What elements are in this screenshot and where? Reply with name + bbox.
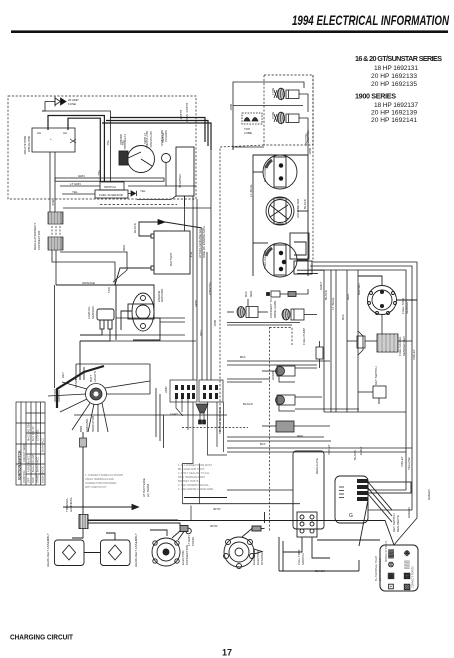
svg-text:HOURMETER: HOURMETER bbox=[296, 198, 300, 218]
svg-text:RED-WHITE: RED-WHITE bbox=[396, 515, 400, 532]
svg-text:VIOLET: VIOLET bbox=[412, 349, 416, 360]
svg-text:SIDE OF ENGINE MTG.: SIDE OF ENGINE MTG. bbox=[202, 225, 206, 258]
svg-text:YEL/RED: YEL/RED bbox=[208, 282, 212, 296]
svg-text:NO.2: NO.2 bbox=[271, 112, 275, 119]
points/condenser bbox=[242, 113, 262, 124]
svg-text:PROTECTED WIRE: PROTECTED WIRE bbox=[218, 407, 222, 434]
svg-text:BATTERY: BATTERY bbox=[169, 252, 173, 266]
svg-text:LT GRN: LT GRN bbox=[70, 182, 81, 186]
low oil coil bbox=[97, 309, 114, 320]
plug conn A bbox=[237, 307, 245, 318]
bar to right bbox=[368, 482, 411, 493]
svg-text:BLACK: BLACK bbox=[353, 450, 357, 460]
oil pressure switch bbox=[162, 154, 171, 163]
notes small text bbox=[85, 464, 214, 491]
fuse + holder right bbox=[347, 331, 412, 404]
svg-text:GREEN: GREEN bbox=[407, 507, 411, 518]
svg-text:FUEL SOLENOID: FUEL SOLENOID bbox=[99, 193, 124, 197]
svg-text:1. CONNECT WIRES AS SHOWN: 1. CONNECT WIRES AS SHOWN bbox=[85, 474, 123, 477]
spark plug 2 bbox=[274, 112, 299, 124]
horizontals mid bbox=[227, 436, 324, 438]
svg-text:18 HP 1692131: 18 HP 1692131 bbox=[374, 65, 418, 72]
svg-text:BLACK: BLACK bbox=[315, 569, 325, 573]
svg-text:IGNITION SWITCH: IGNITION SWITCH bbox=[18, 450, 22, 480]
svg-text:RED: RED bbox=[308, 148, 312, 155]
wire fuse to bundle bbox=[42, 102, 51, 112]
svg-text:LGT+SOL: LGT+SOL bbox=[36, 429, 40, 441]
svg-text:ELECT: ELECT bbox=[179, 110, 183, 120]
svg-text:BLK: BLK bbox=[189, 252, 193, 258]
svg-text:SENDER: SENDER bbox=[405, 301, 409, 314]
svg-text:RUN: RUN bbox=[31, 477, 35, 483]
svg-text:YELLOW: YELLOW bbox=[407, 457, 411, 470]
svg-text:CONN.: CONN. bbox=[191, 536, 195, 546]
svg-text:BRN: BRN bbox=[79, 426, 83, 432]
dash-dot right boundary x=313 bbox=[312, 75, 314, 262]
verticals down left of loop bbox=[323, 270, 325, 412]
svg-text:17: 17 bbox=[222, 648, 232, 658]
gauge 2 bbox=[266, 197, 294, 225]
dashed box top at console split bbox=[270, 328, 293, 346]
dashed boundary lower segment x=269.5 bbox=[269, 327, 271, 532]
svg-text:20 HP 1692139: 20 HP 1692139 bbox=[371, 110, 417, 117]
svg-text:1. ALL CONNECTIONS MUST: 1. ALL CONNECTIONS MUST bbox=[178, 464, 212, 467]
svg-text:STARTER: STARTER bbox=[260, 550, 264, 565]
svg-text:B+A+S+ACC: B+A+S+ACC bbox=[36, 457, 40, 472]
ground plate oval bbox=[132, 293, 154, 331]
svg-text:INDICATOR: INDICATOR bbox=[91, 415, 95, 432]
key switch component bbox=[373, 386, 386, 398]
CD module box bbox=[115, 220, 202, 286]
svg-text:FUEL GAUGE: FUEL GAUGE bbox=[263, 250, 267, 269]
electric connection motor bbox=[152, 538, 180, 566]
svg-text:ELECTRIC: ELECTRIC bbox=[252, 549, 256, 565]
fuel tank sender bbox=[358, 276, 417, 315]
svg-text:RED: RED bbox=[229, 104, 233, 111]
svg-text:G: G bbox=[349, 513, 353, 519]
svg-text:BULB CHECK: BULB CHECK bbox=[41, 466, 45, 483]
svg-text:YEL: YEL bbox=[140, 189, 146, 193]
svg-text:RED: RED bbox=[297, 434, 304, 438]
svg-text:LT. BLUE: LT. BLUE bbox=[249, 185, 253, 197]
svg-text:ORANGE: ORANGE bbox=[82, 281, 95, 285]
svg-text:TAN: TAN bbox=[107, 287, 111, 293]
svg-text:BLACK: BLACK bbox=[303, 199, 307, 209]
starter motor bbox=[224, 537, 254, 567]
regulator rectifier box bbox=[32, 128, 75, 152]
svg-text:HORN: HORN bbox=[271, 371, 275, 380]
svg-text:▒: ▒ bbox=[404, 560, 410, 569]
svg-text:HEADLIGHT ASSEMBLY: HEADLIGHT ASSEMBLY bbox=[46, 533, 50, 567]
svg-text:20 HP 1692133: 20 HP 1692133 bbox=[371, 73, 417, 80]
terminal cluster bbox=[357, 479, 368, 501]
svg-text:NO.1: NO.1 bbox=[271, 88, 275, 95]
svg-text:REGULATOR: REGULATOR bbox=[23, 136, 27, 155]
svg-text:ELECT. START: ELECT. START bbox=[185, 103, 189, 124]
svg-text:30YR: 30YR bbox=[213, 507, 221, 511]
plug conn B bbox=[282, 309, 290, 320]
vertical resistor right bbox=[316, 347, 323, 359]
svg-text:BLK: BLK bbox=[240, 355, 246, 359]
svg-text:COAT TERMINALS: COAT TERMINALS bbox=[378, 558, 382, 581]
svg-text:B+A+ACC LGT: B+A+ACC LGT bbox=[31, 454, 35, 472]
arrow on wire bbox=[132, 504, 139, 509]
svg-text:GREEN: GREEN bbox=[427, 489, 431, 500]
svg-text:CHARGING CIRCUIT: CHARGING CIRCUIT bbox=[10, 633, 74, 642]
svg-text:BLK: BLK bbox=[51, 200, 55, 206]
trunk connector row bbox=[170, 380, 248, 521]
bus lines from gauges to right bbox=[313, 262, 417, 510]
svg-text:GROUND: GROUND bbox=[160, 288, 164, 302]
scattered wire labels for scan texture bbox=[51, 110, 431, 565]
svg-text:+: + bbox=[50, 137, 52, 141]
starter box bbox=[176, 147, 194, 196]
svg-text:YEL: YEL bbox=[72, 190, 78, 194]
regulator labels bbox=[23, 98, 79, 155]
header rule bar bbox=[11, 30, 448, 33]
svg-text:SWITCH: SWITCH bbox=[104, 185, 116, 189]
svg-text:WIRING SYMBOLS: WIRING SYMBOLS bbox=[385, 540, 388, 562]
svg-text:CONNECTORS PROVIDED: CONNECTORS PROVIDED bbox=[85, 482, 117, 485]
tiny components above bbox=[271, 291, 280, 297]
gauge frame wires bbox=[253, 155, 308, 276]
magneto circle + stator bbox=[119, 146, 194, 197]
spokes bbox=[62, 382, 87, 389]
thick lead bbox=[57, 366, 104, 408]
gauge 3 bbox=[263, 243, 297, 277]
svg-text:LT GRN: LT GRN bbox=[143, 133, 147, 144]
outer solid wire rect bbox=[233, 82, 304, 150]
svg-text:LGHT: LGHT bbox=[170, 412, 178, 416]
svg-text:M+G MAG GRD: M+G MAG GRD bbox=[27, 422, 31, 441]
svg-text:B+S SOL ST: B+S SOL ST bbox=[31, 426, 35, 441]
svg-text:CONNECT. POINTS: CONNECT. POINTS bbox=[412, 566, 415, 588]
model list bbox=[355, 54, 442, 124]
svg-text:START: START bbox=[36, 474, 40, 483]
fuse 20A bbox=[51, 97, 66, 107]
svg-text:SENDER RED: SENDER RED bbox=[402, 335, 406, 356]
svg-text:AMP: AMP bbox=[164, 386, 168, 393]
svg-text:NONE B+ACC: NONE B+ACC bbox=[27, 455, 31, 472]
svg-text:RED: RED bbox=[346, 293, 350, 300]
engine dashed enclosure bbox=[8, 96, 196, 199]
svg-text:OIL GAUGE: OIL GAUGE bbox=[263, 166, 267, 182]
svg-text:KEY: KEY bbox=[61, 372, 65, 378]
svg-text:VIOLET: VIOLET bbox=[327, 444, 331, 455]
wires converging from left bbox=[116, 317, 185, 319]
svg-text:RECTIFIER: RECTIFIER bbox=[27, 136, 31, 153]
svg-text:BLK: BLK bbox=[260, 442, 266, 446]
micro switch B bbox=[276, 396, 285, 405]
svg-text:BLACK: BLACK bbox=[133, 223, 137, 233]
funnel of wires bbox=[196, 404, 208, 413]
svg-text:REGULATE: REGULATE bbox=[315, 458, 319, 474]
svg-text:YEL: YEL bbox=[97, 170, 101, 176]
regulator/rectifier connectors (hatched) bbox=[48, 212, 63, 250]
svg-text:B+ TERMINAL TIGHT: B+ TERMINAL TIGHT bbox=[374, 555, 378, 581]
spark plug 1 bbox=[274, 88, 299, 100]
gauge connection wires bbox=[253, 171, 263, 173]
svg-text:▓: ▓ bbox=[388, 549, 394, 559]
coil dashed box bbox=[264, 75, 313, 145]
fan-out wires bbox=[368, 482, 392, 510]
headlight assembly 2 bbox=[101, 540, 131, 566]
svg-text:GREY: GREY bbox=[319, 281, 323, 290]
svg-text:HEADLIGHT ASSEMBLY: HEADLIGHT ASSEMBLY bbox=[134, 533, 138, 567]
svg-text:BLK/W: BLK/W bbox=[161, 133, 165, 143]
svg-text:KEY SWITCH: KEY SWITCH bbox=[374, 366, 378, 385]
svg-text:▩: ▩ bbox=[403, 571, 411, 580]
inline connector plug pair (console) bbox=[227, 289, 317, 320]
switch + fuel solenoid row bbox=[55, 163, 196, 206]
svg-text:16 & 20 GT/SUNSTAR SERIES: 16 & 20 GT/SUNSTAR SERIES bbox=[355, 54, 442, 63]
connector pins group 1 bbox=[175, 385, 218, 399]
svg-text:TAN: TAN bbox=[199, 330, 203, 336]
svg-text:VIOLET: VIOLET bbox=[400, 456, 404, 467]
engine/boat dashed boundary vertical x=219 bbox=[220, 145, 264, 433]
svg-text:START: START bbox=[74, 378, 78, 388]
svg-text:CONNECTOR: CONNECTOR bbox=[37, 230, 41, 250]
svg-text:⊡: ⊡ bbox=[388, 582, 395, 591]
svg-text:BATTERY POSTS.: BATTERY POSTS. bbox=[178, 480, 199, 483]
wires below connectors bbox=[52, 208, 211, 388]
svg-text:BLACK: BLACK bbox=[324, 290, 328, 300]
svg-text:1900 SERIES: 1900 SERIES bbox=[355, 92, 396, 101]
svg-text:GREY: GREY bbox=[359, 446, 363, 455]
svg-text:ACTIVATED: ACTIVATED bbox=[149, 131, 153, 148]
legend glyphs 2x4 bbox=[387, 549, 411, 591]
svg-text:FUSE: FUSE bbox=[68, 102, 76, 106]
svg-text:B+A+I+ACC: B+A+I+ACC bbox=[41, 438, 45, 452]
wires up to trunk bbox=[76, 363, 150, 365]
svg-text:SENSOR: SENSOR bbox=[91, 305, 95, 319]
svg-text:GROUND: GROUND bbox=[85, 418, 89, 432]
wire bundle (thick) bbox=[48, 116, 211, 183]
svg-text:RED: RED bbox=[249, 290, 253, 297]
svg-text:BROWN: BROWN bbox=[357, 284, 361, 296]
svg-text:18 HP 1692137: 18 HP 1692137 bbox=[374, 102, 418, 109]
svg-text:BE CLEAN AND TIGHT.: BE CLEAN AND TIGHT. bbox=[178, 468, 205, 471]
svg-text:USING TERMINALS AND: USING TERMINALS AND bbox=[85, 478, 114, 481]
ground mark in box bbox=[70, 139, 76, 143]
svg-text:HARNESS: HARNESS bbox=[69, 497, 73, 512]
svg-text:POSITION: POSITION bbox=[22, 470, 26, 483]
svg-text:RED: RED bbox=[213, 320, 217, 327]
svg-text:▦: ▦ bbox=[387, 571, 395, 580]
micro switch A bbox=[227, 315, 382, 411]
svg-text:YEL: YEL bbox=[106, 140, 110, 146]
svg-text:20 HP 1692141: 20 HP 1692141 bbox=[371, 117, 417, 124]
svg-text:20 HP 1692135: 20 HP 1692135 bbox=[371, 81, 417, 88]
svg-text:⊜: ⊜ bbox=[388, 560, 395, 569]
hatched component top of trunk area bbox=[262, 421, 330, 432]
svg-text:YEL: YEL bbox=[121, 140, 125, 146]
svg-text:4. USE MARINE GRADE WIRE.: 4. USE MARINE GRADE WIRE. bbox=[178, 488, 214, 491]
svg-text:▨: ▨ bbox=[403, 582, 411, 591]
svg-text:YELLOW: YELLOW bbox=[304, 133, 308, 146]
connector mid bbox=[79, 515, 88, 529]
svg-text:RED: RED bbox=[122, 244, 126, 251]
svg-text:❉: ❉ bbox=[404, 549, 411, 558]
wires below bbox=[278, 537, 280, 571]
svg-text:CONNECTION: CONNECTION bbox=[185, 545, 189, 565]
terminal block 6pin bbox=[297, 512, 317, 537]
svg-text:ORN: ORN bbox=[194, 300, 198, 307]
wires around bbox=[56, 285, 116, 340]
svg-text:BLK: BLK bbox=[341, 314, 345, 320]
svg-text:OFF: OFF bbox=[27, 477, 31, 483]
svg-text:WITH SWITCH KIT.: WITH SWITCH KIT. bbox=[85, 486, 107, 489]
svg-text:LT. BLUE: LT. BLUE bbox=[331, 298, 335, 310]
svg-text:LIGHTS: LIGHTS bbox=[93, 371, 97, 382]
svg-text:WIRE HARN.: WIRE HARN. bbox=[273, 300, 277, 318]
svg-text:BLACK: BLACK bbox=[243, 402, 253, 406]
svg-text:(2) TERM: (2) TERM bbox=[146, 484, 150, 497]
svg-text:SWITCH: SWITCH bbox=[57, 390, 61, 402]
svg-text:30YR: 30YR bbox=[210, 524, 218, 528]
headlight assembly 1 bbox=[55, 540, 85, 566]
svg-text:RING TERMINALS AND: RING TERMINALS AND bbox=[178, 476, 205, 479]
gauge 1 bbox=[263, 155, 297, 189]
svg-text:BLK: BLK bbox=[244, 291, 248, 297]
left pair down from regulator bbox=[49, 152, 51, 212]
svg-text:2. APPLY SEALANT TO ALL: 2. APPLY SEALANT TO ALL bbox=[178, 472, 210, 475]
svg-text:LOBE: LOBE bbox=[244, 131, 252, 135]
svg-text:SWITCH: SWITCH bbox=[301, 553, 305, 565]
svg-text:CIRCUIT MADE: CIRCUIT MADE bbox=[22, 443, 26, 462]
svg-text:FUEL PUMP: FUEL PUMP bbox=[302, 328, 306, 345]
svg-text:GRN: GRN bbox=[78, 174, 85, 178]
B+ terminal label text bbox=[374, 555, 382, 581]
svg-text:1994 ELECTRICAL INFORMATION: 1994 ELECTRICAL INFORMATION bbox=[292, 12, 450, 28]
svg-text:3. SEE OWNERS MANUAL.: 3. SEE OWNERS MANUAL. bbox=[178, 484, 210, 487]
